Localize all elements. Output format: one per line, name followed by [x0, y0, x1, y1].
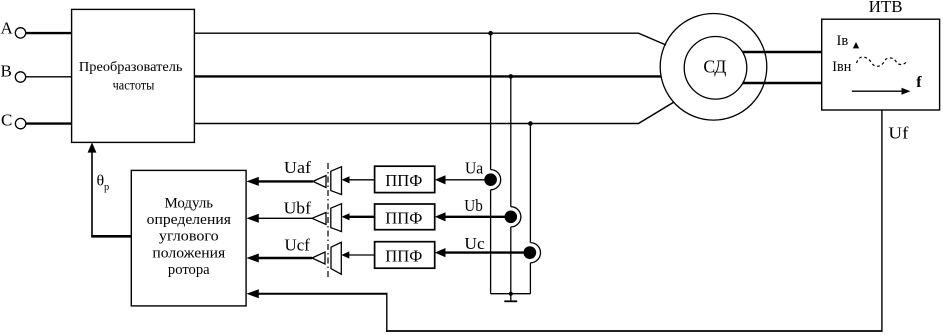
svg-text:ИТВ: ИТВ — [869, 0, 903, 16]
arrowhead into PPF3 — [435, 248, 446, 257]
hop arc around Ub dot — [511, 207, 521, 227]
svg-text:Uc: Uc — [464, 234, 484, 253]
wire C input — [26, 122, 72, 124]
node Uc dot — [523, 246, 536, 259]
svg-text:f: f — [916, 74, 922, 91]
wire Uf down from ITV — [881, 110, 883, 331]
svg-text:Ubf: Ubf — [284, 198, 312, 217]
svg-text:ППФ: ППФ — [385, 208, 422, 227]
wire theta-p feedback — [91, 152, 131, 236]
terminal C — [1, 111, 26, 130]
terminal A — [1, 19, 26, 38]
ground — [504, 294, 517, 302]
svg-text:Ub: Ub — [464, 196, 483, 215]
label theta-p — [97, 173, 110, 194]
wire phase B to motor — [194, 75, 661, 77]
field wire bottom — [743, 82, 822, 85]
field wire top — [743, 51, 822, 54]
svg-text:ППФ: ППФ — [385, 171, 422, 190]
ITV box (exciter current indicator) — [822, 19, 940, 110]
wire PPF2 to isolator 2 — [349, 216, 375, 218]
arrowhead into PPF1 — [435, 175, 446, 184]
wire A input — [26, 32, 72, 34]
svg-text:частоты: частоты — [113, 79, 155, 94]
wire Uc tap to filter — [444, 251, 526, 253]
amplifier A2 triangle — [312, 213, 326, 225]
decaying wave curve — [857, 57, 907, 66]
arrowhead into isolator 1 — [342, 176, 350, 183]
wire Ua tap to filter — [444, 179, 487, 181]
svg-text:Iв: Iв — [837, 33, 849, 49]
amplifier A1 triangle — [313, 176, 326, 188]
ground bus — [491, 293, 531, 295]
svg-text:ППФ: ППФ — [385, 247, 422, 266]
wire Ubf to module — [258, 217, 313, 219]
up arrow marker — [853, 42, 859, 48]
svg-text:Uaf: Uaf — [284, 158, 312, 177]
ground junction dot — [509, 292, 513, 296]
svg-text:р: р — [104, 182, 109, 193]
hop arc around Ua dot — [491, 170, 501, 190]
svg-text:положения: положения — [152, 245, 225, 261]
arrowhead Ubf into module — [246, 214, 258, 223]
terminal B — [1, 61, 26, 82]
svg-text:B: B — [1, 61, 12, 80]
band-pass filter PPF2 — [375, 204, 435, 230]
svg-text:определения: определения — [147, 212, 232, 228]
wire feedback into module — [258, 293, 388, 295]
svg-text:углового: углового — [159, 229, 219, 245]
wire phase C to motor — [194, 102, 674, 124]
f axis arrow — [852, 88, 911, 95]
svg-text:A: A — [1, 19, 14, 38]
hop arc around Uc dot — [530, 243, 540, 263]
svg-text:Ucf: Ucf — [285, 236, 311, 255]
svg-text:Преобразователь: Преобразователь — [79, 60, 183, 75]
svg-text:Uf: Uf — [888, 124, 908, 143]
isolator U3 trapezoid — [331, 204, 342, 232]
junction dot phase A tap — [488, 31, 493, 36]
svg-text:C: C — [1, 111, 12, 130]
arrowhead theta-p into converter — [88, 142, 97, 152]
arrowhead feedback — [246, 289, 258, 298]
isolator U4 trapezoid — [331, 242, 341, 274]
wire bottom feedback horizontal — [386, 330, 882, 332]
svg-text:Модуль: Модуль — [165, 195, 214, 211]
tap wire 1 (Ua) vertical — [490, 33, 492, 169]
node Ua dot — [484, 173, 497, 186]
node Ub dot — [505, 211, 518, 224]
isolation barrier dash-dot line — [327, 163, 329, 277]
wire B input — [26, 76, 72, 78]
svg-text:Ua: Ua — [465, 158, 484, 177]
arrowhead into isolator 2 — [342, 213, 350, 220]
arrowhead Ucf into module — [246, 254, 258, 263]
wire Uaf to module — [258, 180, 313, 182]
wire Ucf to module — [258, 257, 313, 259]
frequency converter box U1 — [72, 9, 195, 142]
rotor position module box — [131, 170, 246, 306]
tap wire 2 (Ub) vertical — [510, 76, 512, 206]
wire PPF3 to isolator 3 — [349, 254, 375, 256]
arrowhead Uaf into module — [246, 177, 258, 186]
svg-text:ротора: ротора — [168, 262, 210, 278]
svg-text:СД: СД — [703, 56, 726, 76]
tap wire 3 (Uc) vertical — [529, 124, 531, 243]
amplifier A3 triangle — [312, 252, 325, 264]
arrowhead into PPF2 — [435, 212, 446, 221]
band-pass filter PPF1 — [375, 166, 435, 192]
isolator U2 trapezoid — [331, 167, 342, 195]
junction dot phase C tap — [528, 121, 533, 126]
wire feedback rise — [386, 294, 388, 332]
arrowhead into isolator 3 — [341, 251, 349, 258]
svg-text:Iвн: Iвн — [832, 59, 851, 75]
motor СД — [660, 14, 767, 121]
wire Ub tap to filter — [444, 216, 507, 218]
wire phase A to motor — [194, 33, 666, 45]
wire PPF1 to isolator 1 — [349, 179, 375, 181]
band-pass filter PPF3 — [375, 242, 435, 269]
junction dot phase B tap — [509, 74, 514, 79]
